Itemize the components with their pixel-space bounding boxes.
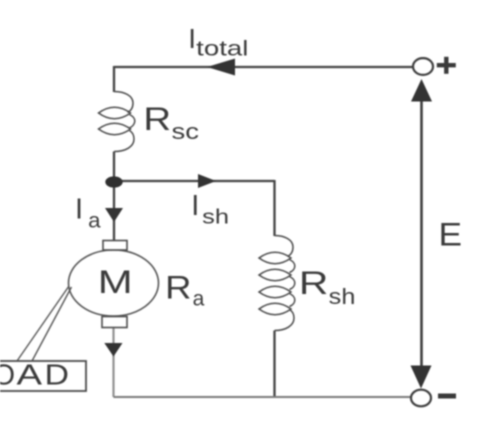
arrowhead Ia (points down) (105, 208, 123, 222)
svg-text:M: M (98, 264, 133, 300)
minus sign (438, 394, 456, 399)
wire shunt branch horizontal (114, 180, 275, 182)
plus sign (437, 57, 456, 74)
wire Ia vertical node to brush (113, 182, 115, 241)
arrowhead Itotal (points left) (207, 59, 235, 76)
LOAD callout pointer line left (17, 286, 69, 361)
LOAD callout pointer line right (32, 287, 72, 361)
svg-text:total: total (196, 38, 248, 61)
svg-text:I: I (191, 190, 199, 222)
inductor Rsc (99, 92, 135, 152)
svg-text:A: A (17, 359, 43, 391)
svg-text:O: O (0, 359, 15, 391)
arrowhead Ish (points right) (198, 174, 216, 188)
wire bottom horizontal (114, 396, 412, 398)
wire left vertical below Rsc to node (113, 152, 115, 183)
svg-text:sh: sh (202, 207, 229, 229)
wire below motor to bottom (112, 328, 114, 398)
svg-text:D: D (45, 359, 70, 391)
motor brush bottom (102, 317, 127, 328)
svg-text:a: a (88, 210, 101, 233)
terminal top (+) (413, 58, 433, 75)
wire left vertical above Rsc (113, 66, 115, 92)
svg-text:I: I (75, 194, 83, 226)
wire top horizontal (114, 66, 413, 68)
svg-text:R: R (299, 265, 329, 301)
terminal bottom (-) (411, 390, 431, 407)
arrowhead E top (points up) (411, 79, 432, 102)
LOAD box (0, 361, 86, 391)
motor M armature circle (69, 250, 159, 316)
svg-text:R: R (165, 270, 191, 306)
svg-text:E: E (439, 217, 463, 253)
svg-text:a: a (193, 287, 205, 310)
svg-text:sh: sh (329, 284, 356, 309)
node junction dot (105, 176, 122, 187)
svg-text:I: I (188, 23, 196, 54)
wire shunt branch vertical upper (273, 180, 275, 236)
voltage E measurement line (420, 97, 423, 370)
svg-text:R: R (143, 101, 171, 137)
arrowhead below motor (points down) (104, 343, 122, 357)
arrowhead E bottom (points down) (411, 366, 432, 389)
motor brush top (103, 241, 127, 251)
inductor Rsh (259, 236, 295, 331)
wire shunt branch vertical lower (273, 331, 275, 398)
svg-text:sc: sc (172, 119, 199, 144)
